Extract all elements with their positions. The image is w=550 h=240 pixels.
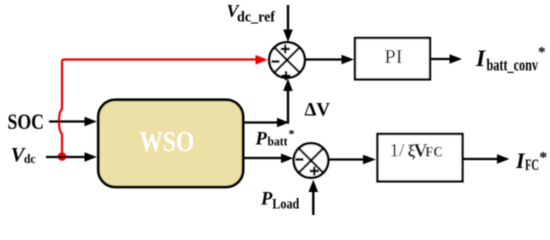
summing junction S2 <box>294 143 329 178</box>
wire Vdc_ref to summer S1 <box>283 5 293 42</box>
label PLoad <box>260 190 300 213</box>
svg-text:dc_ref: dc_ref <box>237 9 275 25</box>
wire gain block output <box>463 154 510 164</box>
node junction red dot on Vdc line <box>58 152 67 161</box>
wire WSO top output to vertical dV line <box>245 118 290 128</box>
wire dV vertical into S1 <box>283 79 293 124</box>
svg-text:FC: FC <box>525 157 539 174</box>
svg-text:WSO: WSO <box>139 127 194 158</box>
svg-text:P: P <box>255 129 268 149</box>
label Ibatt_conv* <box>475 45 546 75</box>
svg-text:batt_conv: batt_conv <box>487 56 539 75</box>
wire WSO bottom output to summer S2 <box>245 154 294 164</box>
svg-text:*: * <box>289 127 295 141</box>
svg-text:1/: 1/ <box>390 141 406 162</box>
block PI <box>355 38 430 79</box>
svg-text:batt: batt <box>268 135 289 149</box>
sign plus bottom of S1 <box>282 71 291 80</box>
wire red Vdc feedback to S1 <box>59 55 268 153</box>
wire PLoad input to S2 <box>309 180 319 215</box>
sign minus left of S2 <box>296 158 304 161</box>
svg-text:*: * <box>539 150 547 167</box>
wire SOC input <box>49 117 97 127</box>
svg-text:Load: Load <box>272 196 300 212</box>
wire Vdc input <box>46 152 97 162</box>
svg-text:FC: FC <box>425 145 443 161</box>
svg-text:I: I <box>475 46 486 72</box>
block 1/xiVFC <box>378 134 463 181</box>
sign plus top of S1 <box>281 45 290 54</box>
svg-text:PI: PI <box>384 46 402 68</box>
wire PI output <box>430 54 462 64</box>
svg-text:dc: dc <box>24 151 36 166</box>
svg-text:ΔV: ΔV <box>305 99 331 120</box>
label IFC* <box>515 148 547 174</box>
label Pbatt* <box>255 127 295 150</box>
summing junction S1 <box>269 42 305 80</box>
wire S2 to gain block <box>328 155 376 165</box>
label Vdc_ref <box>227 1 276 25</box>
wire S1 to PI block <box>304 55 354 65</box>
sign plus bottom of S2 <box>310 167 319 176</box>
sign minus left of S1 <box>272 60 280 63</box>
block WSO <box>98 100 243 187</box>
svg-text:SOC: SOC <box>8 109 45 134</box>
label Vdc <box>11 144 36 166</box>
svg-text:P: P <box>260 190 273 210</box>
svg-text:*: * <box>538 45 546 61</box>
